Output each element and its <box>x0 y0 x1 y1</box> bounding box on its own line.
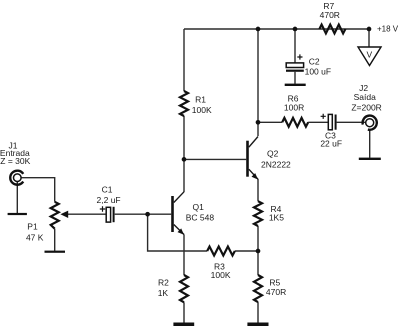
wire C3 to J2 <box>337 121 366 123</box>
transistor Q1 BC 548 <box>171 196 174 232</box>
wire top rail from R1 top to +18V node <box>184 28 369 30</box>
plus sign C3 <box>321 114 326 119</box>
svg-text:100 uF: 100 uF <box>305 67 331 77</box>
svg-text:Q2: Q2 <box>267 149 279 159</box>
svg-text:R1: R1 <box>195 95 206 105</box>
connector J2 (output jack) <box>366 119 374 127</box>
svg-text:R2: R2 <box>158 278 169 288</box>
wire R4 bottom through node to R5 top <box>257 226 259 275</box>
transistor Q2 2N2222 <box>246 141 249 177</box>
wire J1 to P1 top corner <box>22 178 55 202</box>
wire R6 to C3 <box>308 121 328 123</box>
wire C2 to ground <box>294 72 296 84</box>
resistor R6 100R (horizontal) <box>282 118 308 127</box>
svg-text:R5: R5 <box>269 277 280 287</box>
ground under C2 <box>285 84 306 86</box>
capacitor C2 100 uF (electrolytic, vertical) <box>286 63 303 68</box>
svg-text:Saída: Saída <box>354 92 376 102</box>
svg-text:V: V <box>366 50 372 60</box>
svg-text:100K: 100K <box>211 270 231 280</box>
ground under J2 <box>359 158 381 160</box>
node Q2 collector / top rail <box>256 27 261 32</box>
wire P1 wiper to C1 <box>67 213 106 215</box>
wire J1 ground stem <box>16 182 18 213</box>
capacitor C1 2,2 uF (electrolytic, horizontal) <box>106 207 110 222</box>
node C2 / top rail <box>293 27 298 32</box>
wire +18V stem to V symbol <box>368 29 370 47</box>
svg-text:470R: 470R <box>266 287 286 297</box>
resistor R7 470R (horizontal) <box>319 25 345 34</box>
connector J1 (input jack) <box>13 174 21 182</box>
wire R5 bottom to ground <box>257 302 259 323</box>
wire Q2 collector vertical from top rail <box>257 29 259 136</box>
svg-text:100R: 100R <box>284 102 304 112</box>
wire R2 bottom to ground <box>183 302 185 323</box>
svg-text:Z=200R: Z=200R <box>351 102 381 112</box>
wire Q2 emitter to R4 <box>257 179 259 201</box>
node output / Q2 collector <box>256 120 261 125</box>
node +18V / top rail <box>367 27 372 32</box>
resistor R2 1K <box>180 275 188 302</box>
power terminal V symbol (+18V) <box>358 47 381 66</box>
svg-text:22 uF: 22 uF <box>320 139 342 149</box>
svg-text:100K: 100K <box>192 105 212 115</box>
svg-text:Q1: Q1 <box>193 202 205 212</box>
svg-text:Z = 30K: Z = 30K <box>0 156 30 166</box>
svg-text:2N2222: 2N2222 <box>261 160 291 170</box>
wire output line from Q2 collector node to R6 <box>258 121 282 123</box>
svg-text:470R: 470R <box>320 10 340 20</box>
svg-text:C1: C1 <box>102 185 113 195</box>
wire R1 top vertical <box>183 29 185 91</box>
plus sign C1 <box>100 206 105 211</box>
wire P1 bottom to ground <box>54 229 56 251</box>
wire C2 stem from top rail <box>294 29 296 63</box>
svg-text:1K: 1K <box>158 288 169 298</box>
svg-text:P1: P1 <box>27 222 38 232</box>
node Q2 base / Q1 collector <box>182 157 187 162</box>
ground under J1 <box>8 213 27 215</box>
resistor R5 470R <box>254 275 262 302</box>
wiper arrowhead on P1 <box>60 211 68 218</box>
wire Q1 emitter down to R2 <box>183 235 185 276</box>
wire C1 to Q1 base <box>115 213 172 215</box>
resistor R1 100K <box>180 91 188 116</box>
svg-text:C2: C2 <box>309 57 320 67</box>
node R3 / R4 / R5 <box>256 249 261 254</box>
ground under P1 <box>45 251 66 253</box>
potentiometer P1 47K <box>51 202 59 229</box>
resistor R3 100K (horizontal) <box>207 247 235 256</box>
wire feedback from base node down to R3 <box>148 214 208 251</box>
wire R1 bottom to Q1 collector <box>183 116 185 192</box>
node Q1 base / feedback <box>145 212 150 217</box>
resistor R4 1K5 <box>254 201 262 226</box>
svg-text:2,2 uF: 2,2 uF <box>97 195 121 205</box>
ground under R5 <box>247 323 268 326</box>
wire J2 ground stem <box>369 130 371 158</box>
svg-text:1K5: 1K5 <box>269 213 284 223</box>
svg-text:+18 V: +18 V <box>377 25 399 34</box>
wire Q1 collector node to Q2 base <box>184 158 246 160</box>
svg-text:BC 548: BC 548 <box>186 213 215 223</box>
wire R3 right to R4/R5 node <box>235 250 258 252</box>
plus sign C2 <box>297 54 302 59</box>
capacitor C3 22 uF (electrolytic, horizontal) <box>328 114 332 129</box>
ground under R2 <box>173 323 194 326</box>
svg-text:47 K: 47 K <box>26 233 44 243</box>
